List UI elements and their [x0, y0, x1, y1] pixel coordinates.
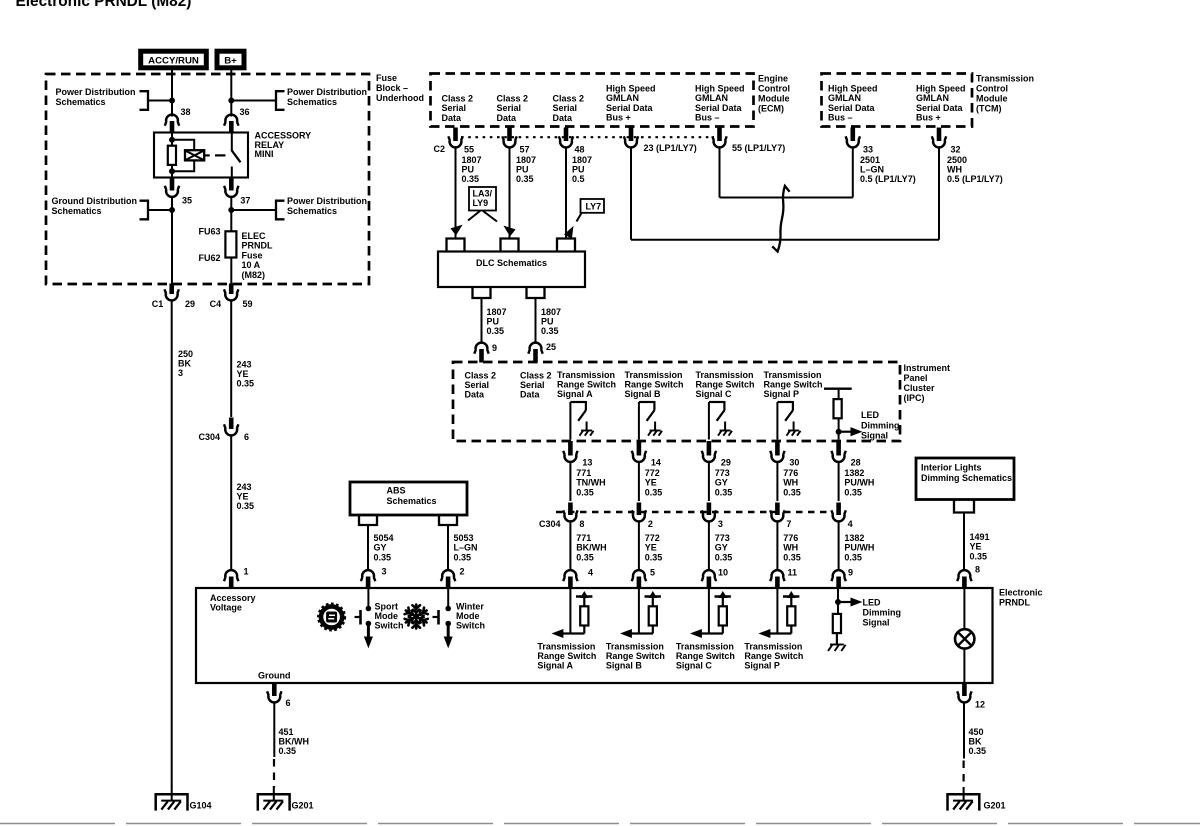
svg-text:Serial: Serial: [442, 103, 467, 113]
stub class2 b: [501, 239, 519, 252]
svg-text:PU: PU: [572, 165, 585, 175]
svg-text:33: 33: [863, 145, 873, 155]
svg-text:771: 771: [576, 468, 591, 478]
wire LED dimming into PRNDL: [836, 588, 841, 615]
arrow LY7: [565, 213, 582, 238]
svg-text:Signal B: Signal B: [606, 661, 643, 671]
svg-text:L–GN: L–GN: [860, 165, 884, 175]
svg-text:0.5 (LP1/LY7): 0.5 (LP1/LY7): [860, 174, 916, 184]
wire TRS A into PRNDL: [569, 588, 571, 634]
svg-text:GMLAN: GMLAN: [606, 93, 639, 103]
svg-text:1807: 1807: [487, 307, 507, 317]
connector pin 23 bus plus: [624, 128, 697, 154]
wire 773 lower segment: [708, 522, 710, 571]
label instrument panel cluster: [904, 363, 951, 403]
stub class2 a: [447, 239, 465, 252]
wire DLC to IPC b: [535, 298, 537, 343]
arrow TRS B output: [621, 630, 653, 638]
svg-text:Class 2: Class 2: [497, 94, 529, 104]
wire 5053 L-GN: [447, 525, 449, 570]
winter mode switch wire bottom: [444, 621, 452, 647]
label sport mode switch: [375, 602, 404, 631]
connector pin 37: [224, 178, 250, 206]
svg-text:LED: LED: [863, 598, 882, 608]
sport mode switch wire bottom: [365, 621, 373, 647]
svg-text:Electronic: Electronic: [999, 588, 1043, 598]
ground G201 left: [258, 786, 290, 811]
svg-text:Serial: Serial: [497, 103, 522, 113]
svg-text:Bus +: Bus +: [916, 113, 941, 123]
wire 1382 lower segment: [838, 522, 840, 571]
svg-text:Transmission: Transmission: [537, 642, 595, 652]
wire DLC to IPC a: [481, 298, 483, 343]
svg-text:YE: YE: [237, 492, 249, 502]
svg-text:Bus +: Bus +: [606, 113, 631, 123]
svg-text:14: 14: [651, 458, 661, 468]
connector pin 4 PRNDL: [563, 568, 593, 589]
label LED dimming signal PRNDL: [863, 598, 902, 628]
svg-text:Ground: Ground: [258, 671, 291, 681]
label TRS signal C PRNDL: [676, 642, 735, 671]
label wire 1807 PU 0.35 a: [462, 155, 482, 184]
wire 451 BK/WH: [273, 703, 275, 758]
svg-text:0.35: 0.35: [462, 174, 480, 184]
title Electronic PRNDL (M82): [16, 0, 192, 10]
label C2: [434, 144, 446, 154]
label wire 1491 YE: [970, 532, 990, 561]
svg-text:TN/WH: TN/WH: [576, 478, 606, 488]
svg-text:Range Switch: Range Switch: [764, 380, 823, 390]
svg-text:FU63: FU63: [199, 227, 221, 237]
svg-text:Class 2: Class 2: [442, 94, 474, 104]
svg-text:55 (LP1/LY7): 55 (LP1/LY7): [732, 143, 785, 153]
svg-text:Control: Control: [976, 84, 1008, 94]
connector pin 35: [165, 178, 192, 206]
stub DLC out a: [473, 287, 491, 298]
svg-text:PRNDL: PRNDL: [999, 598, 1031, 608]
svg-text:Mode: Mode: [456, 611, 480, 621]
stub ABS out a: [359, 515, 377, 525]
svg-text:(TCM): (TCM): [976, 104, 1002, 114]
svg-text:7: 7: [786, 519, 791, 529]
svg-text:Accessory: Accessory: [210, 593, 256, 603]
svg-text:0.35: 0.35: [645, 487, 663, 497]
svg-text:773: 773: [715, 533, 730, 543]
svg-text:29: 29: [185, 299, 195, 309]
connector pin 55 bus minus: [712, 128, 785, 154]
wire ground dist to wire: [148, 208, 175, 213]
svg-text:10 A: 10 A: [242, 260, 261, 270]
arrow LA3 left: [451, 211, 480, 235]
svg-text:3: 3: [718, 519, 723, 529]
svg-text:Data: Data: [497, 113, 518, 123]
wire 35 to C1: [171, 197, 173, 284]
svg-text:0.35: 0.35: [237, 501, 255, 511]
connector pin 9 PRNDL: [831, 568, 853, 589]
wire LED resistor to ground: [836, 633, 838, 644]
label wire 773 GY upper: [715, 468, 733, 497]
label trs signal C head: [696, 370, 755, 399]
svg-text:GY: GY: [715, 478, 728, 488]
svg-text:DLC Schematics: DLC Schematics: [476, 258, 547, 268]
svg-text:1807: 1807: [572, 155, 592, 165]
svg-text:Transmission: Transmission: [696, 370, 754, 380]
svg-text:Bus –: Bus –: [828, 113, 853, 123]
label wire 450 BK: [969, 727, 987, 756]
svg-text:Class 2: Class 2: [553, 94, 585, 104]
label LED dimming signal IPC: [861, 410, 900, 441]
label ground PRNDL: [258, 671, 291, 681]
terminal B+: [217, 51, 244, 68]
wire TRS P into PRNDL: [776, 588, 778, 634]
wire 1491 YE: [963, 513, 965, 571]
connector pin 13 IPC out: [563, 441, 592, 468]
svg-text:0.35: 0.35: [783, 552, 801, 562]
svg-text:1807: 1807: [462, 155, 482, 165]
reference power distribution schematics left: [56, 87, 149, 110]
sport mode switch wire top: [366, 588, 371, 611]
svg-text:(M82): (M82): [242, 270, 266, 280]
wire TRS B in IPC: [638, 402, 640, 440]
terminal ACCY/RUN: [141, 51, 207, 68]
svg-text:Panel: Panel: [904, 373, 928, 383]
wire class2 b: [509, 148, 511, 240]
connector pin 25 IPC: [528, 342, 556, 363]
svg-text:0.35: 0.35: [844, 487, 862, 497]
svg-text:Class 2: Class 2: [520, 371, 552, 381]
svg-text:Electronic PRNDL (M82): Electronic PRNDL (M82): [16, 0, 192, 10]
svg-text:1382: 1382: [844, 468, 864, 478]
wire ACCY/RUN feed: [171, 69, 173, 117]
label TRS signal B PRNDL: [606, 642, 665, 671]
svg-text:Interior Lights: Interior Lights: [921, 463, 982, 473]
label wire 771 TN/WH upper: [576, 468, 606, 497]
label G201 right: [984, 801, 1006, 811]
svg-text:PU: PU: [516, 165, 529, 175]
wire 450 BK: [963, 703, 965, 759]
label wire 772 YE lower: [645, 533, 663, 562]
svg-text:WH: WH: [783, 478, 798, 488]
label G104: [190, 801, 212, 811]
svg-text:12: 12: [975, 700, 985, 710]
svg-text:4: 4: [588, 568, 593, 578]
svg-text:Dimming: Dimming: [861, 420, 900, 430]
svg-text:WH: WH: [947, 165, 962, 175]
DLC schematics box: [438, 252, 585, 288]
svg-text:25: 25: [546, 342, 556, 352]
connector C304 pin 3: [702, 503, 723, 530]
svg-text:Power Distribution: Power Distribution: [56, 87, 136, 97]
svg-text:2500: 2500: [947, 155, 967, 165]
wire bus plus horizontal: [631, 239, 939, 241]
svg-text:PU/WH: PU/WH: [844, 478, 874, 488]
svg-text:C1: C1: [152, 299, 164, 309]
svg-text:771: 771: [576, 533, 591, 543]
svg-text:Serial Data: Serial Data: [606, 103, 654, 113]
svg-text:38: 38: [181, 107, 191, 117]
label C304 row: [539, 519, 561, 529]
ABS schematics box: [350, 482, 467, 515]
svg-text:9: 9: [492, 343, 497, 353]
connector C304 pin 2: [632, 503, 653, 530]
resistor TRS C PRNDL: [715, 592, 731, 634]
arrow LED dimming signal IPC: [839, 428, 861, 436]
svg-text:1: 1: [244, 567, 249, 577]
connector pin 8 PRNDL: [957, 565, 980, 589]
svg-text:Transmission: Transmission: [764, 370, 822, 380]
svg-text:5: 5: [650, 568, 655, 578]
svg-text:GMLAN: GMLAN: [695, 93, 728, 103]
svg-text:C2: C2: [434, 144, 446, 154]
wire 450 dashed: [962, 761, 964, 789]
label wire 1382 PU/WH upper: [844, 468, 874, 497]
svg-text:5054: 5054: [374, 533, 394, 543]
svg-text:6: 6: [244, 432, 249, 442]
svg-text:Range Switch: Range Switch: [606, 651, 665, 661]
svg-text:Signal B: Signal B: [625, 389, 662, 399]
label trs signal P head: [764, 370, 823, 399]
wire relay coil branch top: [172, 140, 194, 150]
wire LED branch lower: [836, 418, 841, 439]
svg-text:Class 2: Class 2: [465, 371, 497, 381]
svg-text:Signal C: Signal C: [696, 389, 733, 399]
svg-text:30: 30: [789, 458, 799, 468]
wire 5054 GY: [367, 525, 369, 570]
connector pin 48 class2: [559, 128, 585, 155]
svg-text:PU: PU: [541, 317, 554, 327]
svg-text:YE: YE: [645, 543, 657, 553]
svg-text:Module: Module: [758, 94, 790, 104]
relay coil box with X: [185, 150, 204, 160]
label high speed gmlan bus plus ECM: [606, 84, 656, 123]
label wire 1807 PU 0.35 b: [516, 155, 536, 184]
stub DLC out b: [527, 287, 545, 298]
svg-text:BK/WH: BK/WH: [279, 737, 310, 747]
wire 37 to fuse: [230, 197, 232, 232]
lamp PRNDL indicator: [955, 588, 974, 683]
wire TRS C into PRNDL: [708, 588, 710, 634]
svg-text:C4: C4: [210, 299, 222, 309]
svg-text:0.35: 0.35: [237, 379, 255, 389]
connector C304 pin 8: [563, 503, 584, 530]
label accessory relay mini: [255, 131, 312, 160]
LED dimming branch bar in IPC: [824, 388, 852, 390]
scan artifact bottom line: [0, 823, 1200, 825]
connector pin 5 PRNDL: [632, 568, 655, 589]
label wire 2501 L-GN: [860, 155, 916, 184]
winter mode button contact: [433, 610, 439, 625]
connector pin 28 IPC out: [831, 441, 860, 468]
svg-text:0.35: 0.35: [844, 552, 862, 562]
svg-text:Schematics: Schematics: [387, 496, 437, 506]
svg-text:6: 6: [286, 698, 291, 708]
label wire 243 YE lower: [237, 482, 255, 511]
callout LY7 box: [581, 199, 605, 213]
label class2 serial data IPC a: [465, 371, 497, 400]
svg-text:Data: Data: [553, 113, 574, 123]
svg-text:Winter: Winter: [456, 602, 484, 612]
wire relay switch bottom: [231, 167, 233, 178]
wire 2500 TCM: [938, 148, 940, 240]
arrow LA3 right: [483, 211, 515, 236]
svg-text:Data: Data: [442, 113, 463, 123]
stub class2 c: [557, 239, 575, 252]
connector pin 32 TCM: [932, 128, 961, 155]
wire 772 lower segment: [638, 522, 640, 571]
svg-text:0.35: 0.35: [715, 552, 733, 562]
svg-text:Module: Module: [976, 94, 1008, 104]
label wire 2500 WH: [947, 155, 1003, 184]
svg-text:C304: C304: [539, 519, 561, 529]
wire 451 dashed: [273, 759, 275, 788]
svg-text:243: 243: [237, 360, 252, 370]
wire bus minus horizontal: [720, 197, 853, 199]
ground G104: [156, 786, 188, 811]
svg-text:ELEC: ELEC: [242, 231, 267, 241]
svg-text:Schematics: Schematics: [287, 97, 337, 107]
svg-text:29: 29: [721, 458, 731, 468]
connector pin 10 PRNDL: [702, 568, 728, 589]
wire bus minus ECM: [719, 148, 721, 198]
stub ABS out b: [439, 515, 457, 525]
label high speed gmlan bus minus TCM: [828, 84, 878, 123]
svg-text:0.35: 0.35: [487, 326, 505, 336]
svg-text:Ground Distribution: Ground Distribution: [52, 196, 138, 206]
svg-text:4: 4: [848, 519, 853, 529]
label wire 5053 L-GN: [454, 533, 478, 562]
label wire 451 BK/WH: [279, 727, 310, 756]
svg-text:YE: YE: [237, 369, 249, 379]
sport mode icon: [318, 604, 344, 630]
wire 243 YE upper: [230, 300, 232, 417]
resistor TRS A PRNDL: [576, 592, 592, 634]
label TRS signal P PRNDL: [744, 642, 803, 671]
svg-text:YE: YE: [645, 478, 657, 488]
wire 773 upper segment: [708, 462, 710, 502]
label trs signal B head: [625, 370, 684, 399]
svg-text:Transmission: Transmission: [676, 642, 734, 652]
wire relay switch top: [231, 133, 233, 151]
label high speed gmlan bus plus TCM: [916, 84, 966, 123]
label wire 773 GY lower: [715, 533, 733, 562]
svg-text:0.5: 0.5: [572, 174, 585, 184]
svg-text:Transmission: Transmission: [744, 642, 802, 652]
svg-text:0.35: 0.35: [454, 552, 472, 562]
label trs signal A head: [557, 370, 616, 399]
svg-text:PU: PU: [487, 317, 500, 327]
wire 776 upper segment: [776, 462, 778, 502]
label wire 250 BK 3: [178, 349, 193, 378]
svg-text:Engine: Engine: [758, 74, 788, 84]
label wire 1807 PU c: [487, 307, 507, 336]
reference power distribution schematics right lower: [276, 196, 367, 219]
svg-text:Signal: Signal: [863, 618, 890, 628]
svg-text:5053: 5053: [454, 533, 474, 543]
svg-text:Range Switch: Range Switch: [744, 651, 803, 661]
svg-text:57: 57: [520, 145, 530, 155]
svg-text:Fuse: Fuse: [376, 73, 397, 83]
callout LA3/LY9 box: [469, 187, 496, 211]
svg-text:Switch: Switch: [375, 621, 404, 631]
label elec prndl fuse: [242, 231, 274, 280]
sport mode button contact: [355, 610, 361, 625]
winter mode switch wire top: [446, 588, 451, 611]
svg-text:Cluster: Cluster: [904, 383, 936, 393]
resistor LED in IPC: [834, 399, 842, 418]
svg-text:Dimming Schematics: Dimming Schematics: [921, 473, 1012, 483]
switch TRS signal C in IPC: [709, 401, 732, 436]
label transmission control module: [976, 74, 1034, 114]
electronic PRNDL box: [196, 588, 993, 683]
label class 2 serial data ECM 3: [553, 94, 585, 123]
svg-text:Underhood: Underhood: [376, 93, 424, 103]
svg-text:776: 776: [783, 533, 798, 543]
svg-text:10: 10: [718, 568, 728, 578]
svg-text:Signal A: Signal A: [537, 661, 573, 671]
label wire 243 YE upper: [237, 360, 255, 389]
TCM box: [822, 74, 973, 127]
svg-text:450: 450: [969, 727, 984, 737]
svg-text:GMLAN: GMLAN: [916, 93, 949, 103]
svg-text:Mode: Mode: [375, 611, 399, 621]
resistor TRS B PRNDL: [645, 592, 661, 634]
svg-text:1491: 1491: [970, 532, 990, 542]
resistor TRS P PRNDL: [783, 592, 799, 634]
svg-text:GMLAN: GMLAN: [828, 93, 861, 103]
ECM box: [431, 74, 754, 127]
switch TRS signal P in IPC: [777, 401, 800, 436]
svg-text:BK/WH: BK/WH: [576, 543, 607, 553]
svg-text:Signal C: Signal C: [676, 661, 713, 671]
svg-text:G201: G201: [292, 801, 314, 811]
wire LED branch upper: [838, 389, 840, 400]
svg-text:YE: YE: [970, 542, 982, 552]
svg-text:B+: B+: [224, 56, 237, 67]
svg-text:37: 37: [240, 196, 250, 206]
svg-text:Signal A: Signal A: [557, 389, 593, 399]
wire power dist right to B+ wire: [229, 98, 276, 103]
ground G201 right: [948, 787, 980, 811]
label wire 776 WH lower: [783, 533, 801, 562]
svg-text:1382: 1382: [844, 533, 864, 543]
switch TRS signal B in IPC: [639, 401, 662, 436]
svg-text:Schematics: Schematics: [56, 97, 106, 107]
label fuse block underhood: [376, 73, 424, 103]
svg-text:0.35: 0.35: [541, 326, 559, 336]
svg-text:Serial: Serial: [465, 380, 490, 390]
svg-text:MINI: MINI: [255, 149, 274, 159]
label interior lights dimming: [921, 463, 1012, 484]
relay switch blade: [231, 150, 240, 162]
svg-text:59: 59: [243, 299, 253, 309]
connector pin 29 IPC out: [702, 441, 731, 468]
label electronic PRNDL: [999, 588, 1043, 608]
connector pin 55 class2: [448, 128, 474, 155]
svg-text:Data: Data: [520, 390, 541, 400]
svg-text:23 (LP1/LY7): 23 (LP1/LY7): [644, 143, 697, 153]
wire class2 c: [565, 148, 567, 240]
label wire 1807 PU 0.5: [572, 155, 592, 184]
wire TRS B into PRNDL: [638, 588, 640, 634]
svg-text:Data: Data: [465, 390, 486, 400]
svg-text:772: 772: [645, 533, 660, 543]
svg-text:Block –: Block –: [376, 83, 408, 93]
svg-text:2501: 2501: [860, 155, 880, 165]
junction dot relay coil bottom: [170, 169, 175, 174]
svg-text:BK: BK: [178, 359, 191, 369]
svg-text:250: 250: [178, 349, 193, 359]
label DLC schematics: [476, 258, 547, 268]
